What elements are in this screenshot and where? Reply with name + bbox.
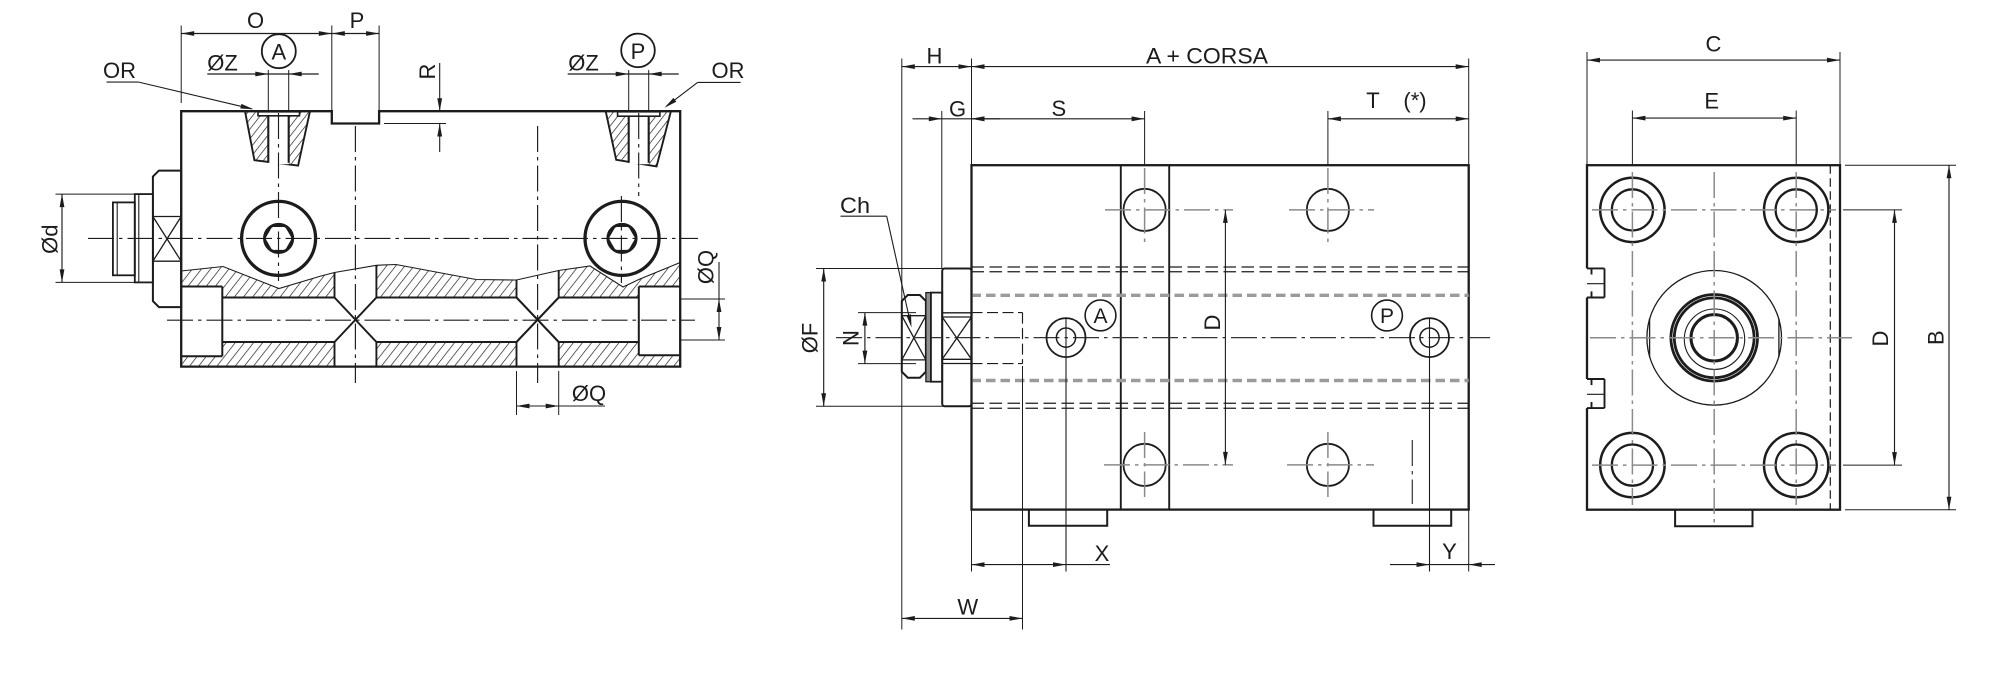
svg-text:C: C [1706, 32, 1722, 57]
svg-text:D: D [1868, 331, 1893, 347]
svg-text:O: O [247, 8, 264, 33]
svg-text:ØZ: ØZ [207, 51, 238, 76]
svg-text:OR: OR [712, 58, 745, 83]
svg-text:(*): (*) [1403, 88, 1426, 113]
svg-text:Y: Y [1442, 539, 1457, 564]
svg-text:W: W [957, 595, 978, 620]
svg-text:Ød: Ød [38, 225, 63, 254]
svg-text:ØQ: ØQ [694, 250, 719, 284]
svg-text:B: B [1924, 330, 1949, 345]
svg-text:ØQ: ØQ [572, 381, 606, 406]
svg-text:S: S [1051, 96, 1066, 121]
svg-text:T: T [1366, 88, 1379, 113]
svg-text:D: D [1200, 315, 1225, 331]
svg-text:ØF: ØF [798, 323, 823, 354]
svg-text:P: P [350, 8, 365, 33]
svg-text:X: X [1095, 541, 1110, 566]
svg-text:OR: OR [103, 58, 136, 83]
svg-text:R: R [415, 64, 440, 80]
svg-text:Ch: Ch [840, 193, 870, 218]
svg-text:H: H [927, 44, 943, 69]
svg-text:P: P [1380, 305, 1394, 328]
svg-text:E: E [1704, 88, 1719, 113]
svg-text:N: N [839, 330, 864, 346]
svg-text:A: A [1093, 305, 1107, 328]
svg-text:A + CORSA: A + CORSA [1146, 44, 1268, 69]
svg-text:G: G [949, 96, 966, 121]
svg-text:ØZ: ØZ [568, 51, 599, 76]
svg-text:A: A [271, 40, 286, 65]
svg-text:P: P [631, 39, 646, 64]
